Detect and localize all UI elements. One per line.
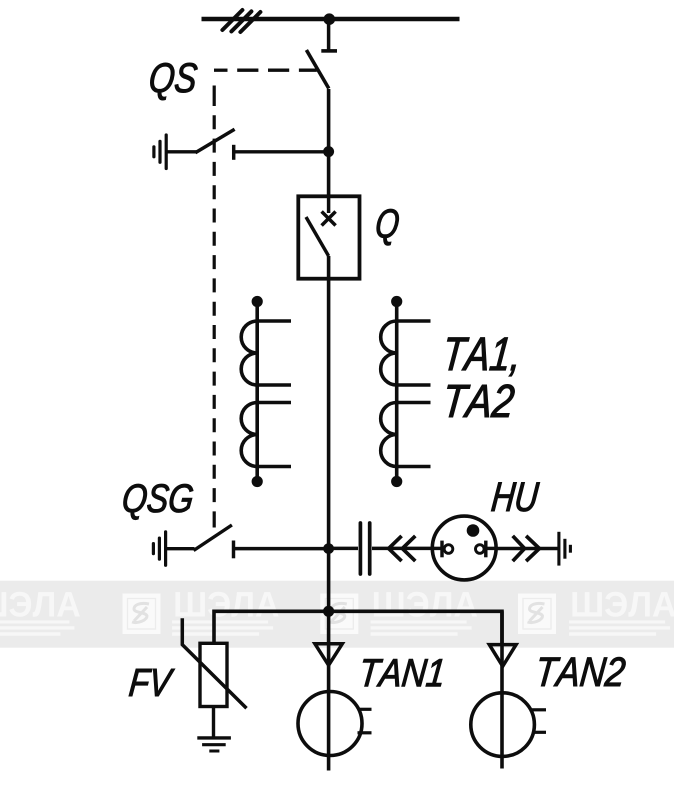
plug-in contact chevrons right — [513, 536, 540, 561]
earthing switch QSG blade — [194, 525, 232, 551]
HU right pin — [476, 545, 485, 554]
interlock linkage dashed vertical — [213, 86, 216, 528]
HU left pin — [432, 547, 442, 550]
node ES1 junction — [323, 146, 334, 157]
plug-in contact chevrons left — [389, 536, 416, 561]
surge arrester FV diagonal — [182, 618, 246, 708]
node lower junction — [323, 606, 334, 617]
transformer TAN1 circle — [298, 692, 362, 756]
wire TAN2 vertical — [500, 611, 504, 768]
watermark band — [0, 581, 674, 648]
node bus junction — [324, 13, 336, 25]
TAN2 secondary ticks — [532, 708, 546, 711]
watermark logo 1 — [123, 594, 161, 635]
transformer TAN2 circle — [471, 693, 535, 757]
busbar — [202, 17, 460, 22]
label QS — [150, 63, 197, 100]
TAN2 arrow — [489, 645, 516, 667]
wire into breaker box — [327, 196, 331, 213]
watermark logo 3 — [518, 594, 556, 635]
current transformer TA2 (right) — [381, 296, 431, 487]
wire TAN1 vertical — [327, 611, 331, 770]
wire FV box to ground — [212, 707, 215, 738]
breaker Q blade — [306, 217, 329, 256]
earthing switch QSG wire from ground — [166, 547, 195, 550]
earthing switch ES1 fixed contact tick — [232, 145, 235, 160]
ground (HU right) — [559, 532, 571, 566]
disconnector QS fixed contact tick — [321, 49, 337, 53]
HU polarity dot — [467, 524, 480, 537]
wire lower distribution — [214, 611, 502, 644]
label TA2 — [448, 385, 515, 418]
wire breaker to QSG junction — [327, 256, 331, 549]
earthing switch ES1 blade — [195, 129, 234, 153]
watermark word 3 — [371, 592, 478, 636]
wire capacitor to HU circle — [372, 547, 432, 550]
TAN1 secondary ticks — [358, 708, 372, 711]
ground (earthing switch QSG) — [153, 532, 165, 566]
ground FV — [197, 738, 231, 751]
wire QS to breaker — [327, 89, 331, 196]
earthing switch QSG fixed contact tick — [232, 541, 235, 559]
wire QSG junction down — [327, 549, 331, 612]
watermark word 2 — [172, 592, 279, 636]
watermark word 1 — [0, 592, 80, 636]
wire ES1 to main line — [234, 150, 329, 153]
label Q — [377, 209, 399, 245]
circuit breaker Q box — [298, 196, 359, 278]
busbar hatch — [222, 10, 260, 32]
watermark logo 2 — [320, 594, 358, 635]
watermark word 4 — [569, 592, 674, 636]
label FV — [129, 669, 175, 696]
node QSG junction — [323, 543, 334, 554]
label HU — [491, 483, 539, 512]
TAN1 arrow — [315, 644, 342, 666]
wire junction to HU capacitor — [329, 547, 358, 550]
wire HU circle to ground — [496, 547, 558, 550]
disconnector QS blade — [306, 50, 328, 89]
ground (earthing switch ES1) — [154, 135, 166, 169]
label QSG — [124, 484, 193, 519]
label TAN1 — [363, 659, 442, 686]
voltage transformer HU circle — [432, 516, 496, 580]
capacitor plates (HU branch) — [360, 523, 369, 574]
breaker Q contact X — [322, 212, 336, 226]
earthing switch ES1 wire from ground — [166, 150, 196, 153]
wire bus to QS — [327, 19, 331, 51]
label TAN2 — [540, 657, 626, 686]
label TA1 — [447, 338, 515, 377]
interlock linkage dashed horizontal — [214, 69, 317, 72]
surge arrester FV box — [200, 643, 227, 706]
wire QSG to main line — [234, 547, 329, 550]
current transformer TA1 (left) — [241, 296, 291, 487]
